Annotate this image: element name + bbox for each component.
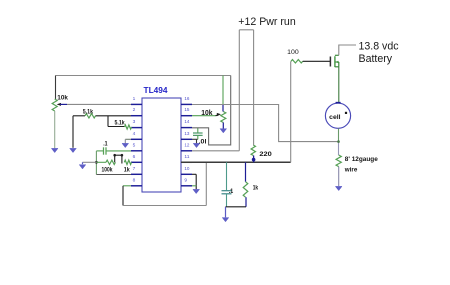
svg-text:5.1k: 5.1k: [83, 109, 94, 116]
svg-text:cell: cell: [329, 114, 341, 121]
svg-text:3: 3: [133, 119, 136, 125]
svg-text:14: 14: [184, 119, 189, 125]
svg-text:7: 7: [133, 166, 136, 172]
svg-text:9: 9: [184, 177, 187, 183]
svg-text:16: 16: [184, 96, 189, 102]
svg-text:+12 Pwr run: +12 Pwr run: [238, 16, 296, 28]
svg-text:10: 10: [184, 166, 189, 172]
svg-text:TL494: TL494: [144, 85, 168, 95]
svg-text:Battery: Battery: [359, 53, 393, 65]
svg-text:15: 15: [184, 107, 189, 113]
svg-text:100: 100: [287, 49, 299, 56]
svg-text:10k: 10k: [57, 94, 68, 101]
svg-text:10k: 10k: [201, 108, 212, 117]
svg-text:5: 5: [133, 142, 136, 148]
svg-text:2: 2: [133, 107, 136, 113]
svg-text:8' 12gauge: 8' 12gauge: [345, 156, 379, 163]
svg-text:13: 13: [184, 131, 189, 137]
svg-text:.1: .1: [229, 188, 234, 195]
svg-text:100k: 100k: [102, 166, 113, 173]
svg-text:4: 4: [133, 131, 136, 137]
svg-text:220: 220: [259, 151, 272, 158]
svg-text:.0l: .0l: [199, 139, 207, 146]
svg-text:13.8 vdc: 13.8 vdc: [359, 40, 400, 52]
svg-text:1k: 1k: [253, 184, 259, 191]
svg-text:1: 1: [133, 96, 136, 102]
svg-text:8: 8: [133, 177, 136, 183]
svg-text:1k: 1k: [124, 166, 130, 173]
svg-text:.1: .1: [103, 141, 108, 148]
svg-text:6: 6: [133, 154, 136, 160]
svg-text:5.1k: 5.1k: [115, 120, 126, 127]
svg-text:12: 12: [184, 142, 189, 148]
svg-text:11: 11: [184, 154, 189, 160]
svg-text:wire: wire: [344, 167, 358, 174]
